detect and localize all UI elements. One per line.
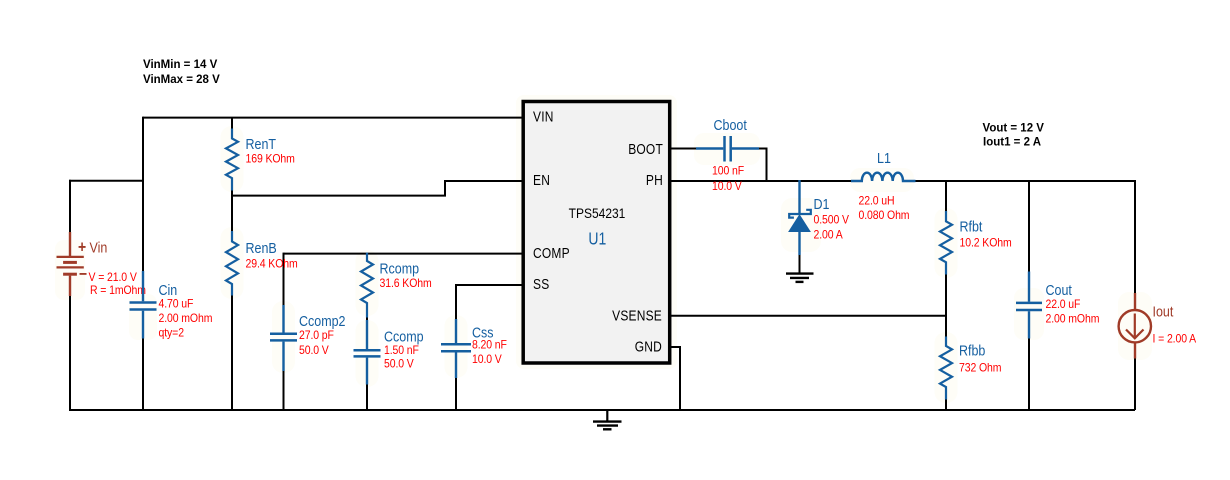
svg-text:BOOT: BOOT — [628, 141, 663, 157]
svg-text:Vin: Vin — [90, 239, 108, 255]
svg-text:22.0 uH: 22.0 uH — [859, 195, 895, 208]
svg-text:Rfbb: Rfbb — [959, 343, 985, 359]
svg-text:31.6 KOhm: 31.6 KOhm — [380, 278, 432, 291]
svg-text:U1: U1 — [588, 230, 606, 249]
svg-text:2.00 mOhm: 2.00 mOhm — [159, 313, 213, 326]
wire EN net — [231, 181, 522, 196]
svg-text:PH: PH — [646, 172, 663, 188]
svg-text:VinMax = 28 V: VinMax = 28 V — [143, 74, 220, 86]
svg-text:qty=2: qty=2 — [159, 327, 184, 340]
svg-text:Ccomp2: Ccomp2 — [299, 313, 345, 329]
inductor L1 — [851, 173, 916, 181]
resistor Rcomp — [361, 253, 373, 318]
wire battery top horizontal — [69, 180, 144, 182]
capacitor Cout — [1016, 272, 1042, 339]
svg-text:TPS54231: TPS54231 — [569, 205, 626, 221]
wire Cin bottom black — [142, 338, 144, 410]
wire Iout top black — [1134, 180, 1136, 294]
svg-text:VIN: VIN — [533, 108, 554, 124]
diode D1 (schottky) — [789, 180, 811, 255]
svg-text:27.0 pF: 27.0 pF — [299, 330, 334, 343]
svg-text:L1: L1 — [877, 150, 891, 166]
resistor RenB — [226, 231, 238, 296]
svg-text:0.080 Ohm: 0.080 Ohm — [859, 210, 910, 223]
svg-text:+: + — [78, 238, 86, 256]
svg-text:10.2 KOhm: 10.2 KOhm — [960, 237, 1012, 250]
svg-text:RenT: RenT — [246, 136, 277, 152]
op-amp U1 (IC body) — [523, 102, 670, 364]
svg-text:1.50 nF: 1.50 nF — [384, 345, 419, 358]
svg-text:22.0 uF: 22.0 uF — [1046, 299, 1081, 312]
svg-text:50.0 V: 50.0 V — [299, 345, 329, 358]
svg-text:R = 1mOhm: R = 1mOhm — [90, 285, 146, 298]
svg-text:VSENSE: VSENSE — [612, 308, 662, 324]
svg-text:EN: EN — [533, 172, 550, 188]
svg-text:V = 21.0 V: V = 21.0 V — [89, 272, 138, 285]
wire PH net right (Vout rail) — [915, 180, 1135, 182]
svg-text:I = 2.00 A: I = 2.00 A — [1153, 333, 1197, 346]
svg-text:100 nF: 100 nF — [712, 165, 744, 178]
svg-text:RenB: RenB — [246, 240, 277, 256]
wire Ccomp2 top black — [283, 253, 285, 306]
wire Css bottom black — [455, 375, 457, 410]
svg-text:169 KOhm: 169 KOhm — [246, 153, 295, 166]
wire left vertical to Cin — [142, 117, 144, 272]
wire Cout bottom black — [1028, 338, 1030, 411]
wire Ccomp bottom black — [366, 384, 368, 410]
wire bottom ground rail — [69, 409, 1135, 411]
svg-text:Cin: Cin — [159, 282, 178, 298]
wire GND pin net — [670, 347, 680, 410]
wire BOOT net black — [670, 148, 697, 150]
battery source Vin — [57, 232, 84, 296]
svg-text:29.4 KOhm: 29.4 KOhm — [246, 258, 298, 271]
faint component highlights — [55, 95, 1152, 403]
svg-text:Ccomp: Ccomp — [384, 329, 424, 345]
wire Rfbb bottom black — [945, 398, 947, 410]
wire battery bottom black — [69, 295, 71, 411]
resistor Rfbt — [940, 211, 952, 275]
svg-text:4.70 uF: 4.70 uF — [159, 298, 194, 311]
svg-text:2.00 mOhm: 2.00 mOhm — [1046, 313, 1100, 326]
svg-text:D1: D1 — [814, 196, 830, 212]
wire SS net — [456, 284, 522, 286]
svg-text:10.0 V: 10.0 V — [472, 354, 502, 367]
svg-text:SS: SS — [533, 276, 549, 292]
resistor Rfbb — [940, 337, 952, 400]
wire RenB bottom black — [231, 295, 233, 410]
capacitor Ccomp — [354, 320, 381, 385]
svg-text:Cout: Cout — [1046, 282, 1073, 298]
svg-text:Iout1 = 2 A: Iout1 = 2 A — [983, 137, 1041, 149]
svg-text:10.0 V: 10.0 V — [712, 181, 742, 194]
svg-text:0.500 V: 0.500 V — [814, 214, 850, 227]
svg-text:8.20 nF: 8.20 nF — [472, 339, 507, 352]
svg-text:2.00 A: 2.00 A — [814, 229, 844, 242]
wire Css top black — [455, 284, 457, 320]
wire D1 bottom black — [799, 254, 801, 273]
svg-text:50.0 V: 50.0 V — [384, 358, 414, 371]
svg-text:Rcomp: Rcomp — [380, 261, 420, 277]
wire PH net left — [670, 180, 852, 182]
svg-text:732 Ohm: 732 Ohm — [959, 362, 1001, 375]
ground (main, bottom center) — [593, 410, 622, 429]
svg-text:Cboot: Cboot — [714, 117, 748, 133]
resistor RenT — [231, 117, 233, 129]
wire Ccomp2 bottom black — [283, 371, 285, 410]
wire Cboot right corner — [758, 149, 767, 182]
ground (D1) — [786, 274, 814, 282]
wire Rfbt-Rfbb middle black — [945, 274, 947, 338]
wire Iout bottom black — [1134, 358, 1136, 411]
wire Rfbt top black — [945, 181, 947, 212]
svg-text:Vout = 12 V: Vout = 12 V — [983, 123, 1045, 135]
capacitor Css — [441, 319, 471, 378]
wire RenB top black — [231, 195, 233, 232]
capacitor Cboot — [696, 136, 759, 162]
svg-text:Iout: Iout — [1153, 303, 1174, 319]
current source Iout — [1119, 293, 1151, 359]
wire VIN top rail — [143, 117, 522, 119]
wire battery top lead black — [69, 180, 71, 233]
svg-text:GND: GND — [635, 338, 662, 354]
svg-text:Rfbt: Rfbt — [960, 219, 983, 235]
svg-text:−: − — [79, 265, 87, 283]
wire Rcomp-Ccomp middle black — [366, 317, 368, 321]
wire COMP net — [284, 253, 523, 255]
wire Cout top black — [1028, 181, 1030, 273]
capacitor Ccomp2 — [270, 305, 297, 371]
wire VSENSE net — [670, 315, 947, 317]
svg-text:COMP: COMP — [533, 245, 570, 261]
svg-text:VinMin = 14 V: VinMin = 14 V — [143, 59, 218, 71]
capacitor Cin — [130, 271, 157, 339]
